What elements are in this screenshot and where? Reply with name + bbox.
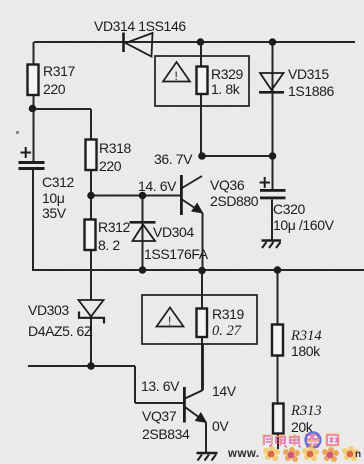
blue ring on watermark: [306, 433, 321, 448]
svg-text:35V: 35V: [42, 205, 67, 221]
node top rail left: [197, 38, 205, 46]
node VD304 top junction: [139, 192, 147, 200]
node top rail right: [269, 38, 277, 46]
node collector junction: [198, 152, 206, 160]
svg-text:VQ37: VQ37: [142, 408, 177, 424]
svg-text:2SD880: 2SD880: [210, 193, 259, 209]
ground for VQ37: [197, 453, 218, 461]
svg-text:n: n: [355, 449, 361, 460]
svg-text:10μ /160V: 10μ /160V: [273, 217, 335, 233]
svg-text:D4AZ5. 6Z: D4AZ5. 6Z: [28, 323, 93, 339]
transistor VQ37: [183, 345, 206, 423]
svg-text:R313: R313: [290, 403, 322, 419]
diode VD315: [259, 73, 284, 94]
wire VD304 column: [142, 196, 144, 271]
wire R318 R312 column: [90, 109, 92, 300]
svg-text:www.: www.: [227, 448, 260, 460]
resistor R314: [272, 325, 283, 356]
resistor R319: [197, 309, 208, 338]
transistor VQ36: [180, 175, 203, 215]
svg-text:C312: C312: [42, 174, 74, 190]
node VD304 bottom on rail: [139, 266, 147, 274]
svg-text:1S1886: 1S1886: [288, 83, 334, 99]
wire below VD303: [90, 317, 92, 366]
diode VD303 zener: [79, 300, 105, 324]
wire jog below R317: [33, 108, 92, 110]
box around R319: [142, 295, 257, 344]
wire VD315 C320 column: [272, 42, 274, 189]
svg-text:220: 220: [99, 158, 122, 174]
node C320 top junction: [269, 152, 277, 160]
svg-text:R314: R314: [290, 328, 322, 344]
svg-text:VD314 1SS146: VD314 1SS146: [94, 18, 186, 34]
svg-text:14V: 14V: [212, 383, 237, 399]
svg-text:0V: 0V: [212, 418, 229, 434]
svg-text:36. 7V: 36. 7V: [154, 151, 193, 167]
svg-text:!: !: [168, 314, 171, 328]
watermark flowers: [263, 446, 361, 462]
warning triangle in R329 box: [163, 62, 190, 83]
resistor R313: [273, 404, 284, 434]
watermark logo: [227, 433, 361, 463]
resistor R329: [197, 67, 208, 95]
wire C320 to ground: [271, 200, 273, 241]
node emitter on rail: [198, 267, 206, 275]
wire VQ36 base: [91, 195, 181, 197]
speck artifact: [16, 131, 19, 134]
warning triangle in R319 box: [157, 308, 184, 329]
svg-text:VD315: VD315: [288, 66, 329, 82]
svg-text:10μ: 10μ: [42, 190, 65, 206]
svg-text:220: 220: [43, 81, 66, 97]
svg-text:2SB834: 2SB834: [142, 426, 190, 442]
wire R319 column: [201, 270, 203, 390]
svg-text:R312: R312: [98, 219, 130, 235]
svg-text:C320: C320: [273, 201, 305, 217]
node base junction: [87, 192, 95, 200]
svg-text:VQ36: VQ36: [210, 177, 245, 193]
svg-text:14. 6V: 14. 6V: [138, 178, 177, 194]
capacitor C312: [19, 147, 45, 170]
resistor R318: [86, 140, 97, 171]
wire collector node 36.7V: [202, 155, 273, 157]
svg-text:VD304: VD304: [153, 224, 194, 240]
svg-text:13. 6V: 13. 6V: [141, 378, 180, 394]
wire VQ36 emitter to rail: [202, 213, 204, 270]
capacitor C320: [260, 177, 286, 199]
svg-text:1SS176FA: 1SS176FA: [144, 246, 209, 262]
svg-text:R318: R318: [99, 140, 131, 156]
svg-text:R329: R329: [211, 66, 243, 82]
wire 13.6V branch: [28, 366, 183, 403]
node VD303 bottom junction: [87, 362, 95, 370]
svg-text:R317: R317: [43, 63, 75, 79]
svg-text:0. 27: 0. 27: [212, 323, 242, 339]
wire left vertical upper: [33, 42, 35, 161]
diode VD304: [130, 221, 156, 241]
resistor R317: [28, 65, 39, 96]
svg-text:180k: 180k: [291, 343, 321, 359]
wire VQ37 collector to ground: [205, 423, 207, 453]
wire R329 column: [200, 42, 202, 156]
wire C312 lower column: [32, 170, 34, 271]
svg-text:R319: R319: [212, 306, 244, 322]
svg-text:VD303: VD303: [28, 302, 69, 318]
wire top rail: [34, 41, 355, 43]
wire ground rail: [32, 269, 364, 271]
node junction below R317: [29, 105, 37, 113]
resistor R312: [85, 220, 96, 251]
ground for C320: [262, 241, 282, 249]
svg-text:8. 2: 8. 2: [98, 237, 120, 253]
svg-text:!: !: [175, 69, 178, 83]
node right column on rail: [274, 266, 282, 274]
svg-text:1. 8k: 1. 8k: [211, 81, 241, 97]
box around R329: [155, 56, 249, 106]
diode VD314: [124, 33, 153, 57]
wire R314 R313 column: [277, 270, 280, 449]
